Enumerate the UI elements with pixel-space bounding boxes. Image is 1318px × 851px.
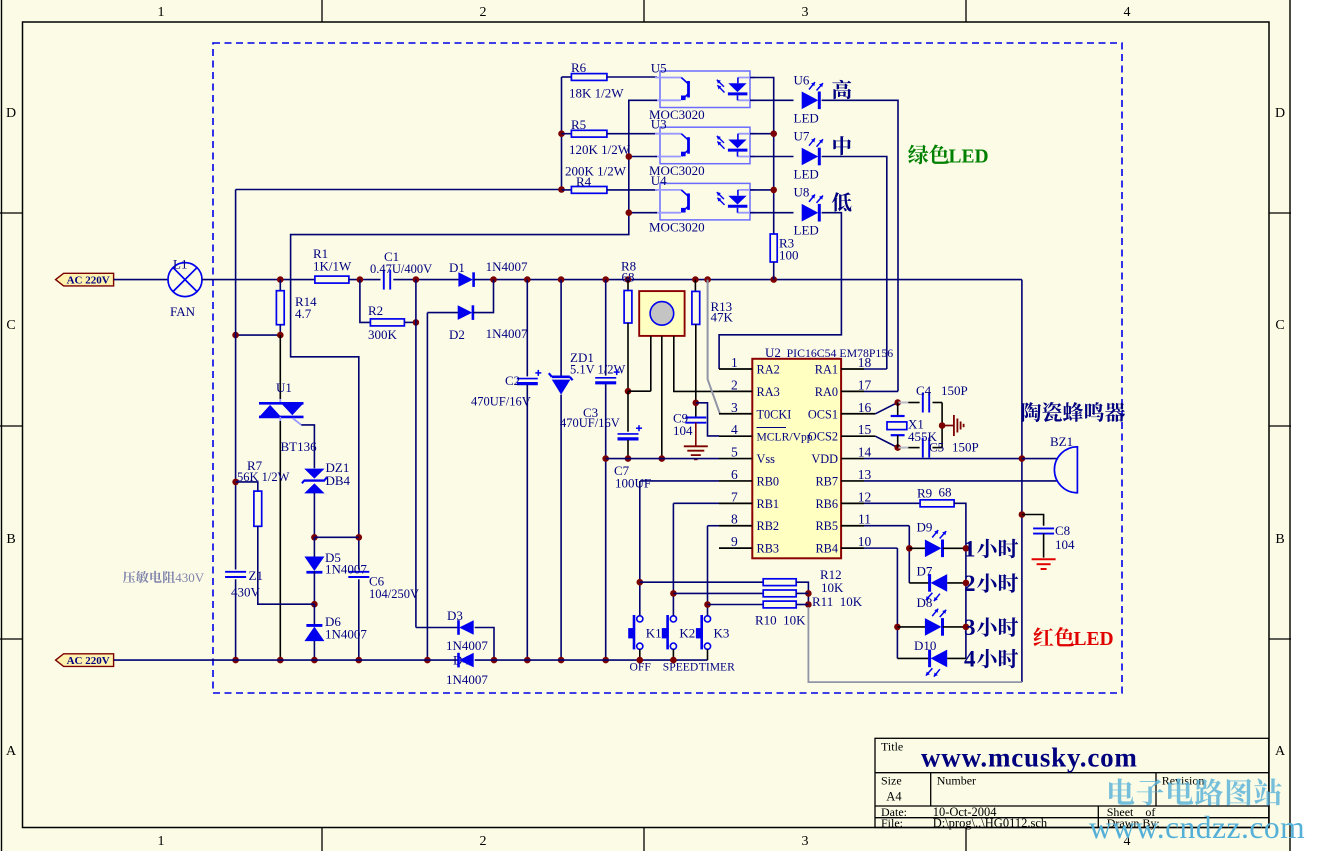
svg-text:68: 68 (622, 270, 635, 285)
svg-text:RA2: RA2 (757, 363, 780, 377)
svg-text:LED: LED (794, 110, 819, 125)
svg-text:3: 3 (964, 615, 976, 640)
svg-text:1N4007: 1N4007 (486, 326, 528, 341)
svg-text:RB6: RB6 (815, 497, 838, 511)
svg-text:FAN: FAN (170, 304, 196, 319)
svg-text:15: 15 (858, 422, 872, 437)
svg-text:TIMER: TIMER (699, 661, 735, 674)
svg-text:1K/1W: 1K/1W (313, 259, 352, 274)
svg-text:6: 6 (731, 467, 738, 482)
svg-text:1: 1 (964, 536, 976, 561)
svg-text:RB3: RB3 (757, 542, 780, 556)
svg-text:LED: LED (1074, 629, 1114, 650)
svg-text:RB5: RB5 (815, 519, 838, 533)
svg-text:D:\prog\..\HG0112.sch: D:\prog\..\HG0112.sch (933, 816, 1048, 830)
svg-text:C2: C2 (505, 373, 520, 388)
svg-text:LED: LED (949, 147, 989, 168)
svg-text:7: 7 (731, 489, 738, 504)
svg-text:RB0: RB0 (757, 474, 780, 488)
svg-text:R6: R6 (571, 60, 587, 75)
svg-text:3: 3 (731, 400, 738, 415)
svg-text:L1: L1 (173, 257, 187, 272)
svg-text:104: 104 (673, 423, 693, 438)
svg-text:3: 3 (802, 834, 809, 849)
svg-text:D1: D1 (449, 260, 465, 275)
svg-text:100UF: 100UF (615, 476, 651, 491)
svg-text:D: D (1275, 106, 1285, 121)
svg-text:150P: 150P (952, 440, 979, 455)
svg-text:300K: 300K (368, 327, 398, 342)
svg-text:OCS1: OCS1 (808, 407, 838, 421)
svg-text:Z1: Z1 (249, 568, 263, 583)
svg-text:430V: 430V (175, 570, 205, 585)
svg-text:U2: U2 (765, 345, 781, 360)
svg-text:Size: Size (881, 774, 902, 788)
svg-text:2: 2 (480, 834, 487, 849)
svg-text:10K: 10K (821, 580, 844, 595)
svg-text:MOC3020: MOC3020 (649, 219, 705, 234)
svg-text:R11 10K: R11 10K (812, 594, 863, 609)
svg-text:1N4007: 1N4007 (446, 672, 488, 687)
svg-text:AC 220V: AC 220V (67, 275, 110, 287)
svg-text:Vss: Vss (757, 452, 776, 466)
svg-text:10: 10 (858, 534, 872, 549)
svg-text:www.mcusky.com: www.mcusky.com (921, 743, 1138, 773)
svg-text:LED: LED (794, 167, 819, 182)
svg-text:A: A (6, 744, 17, 759)
svg-text:4.7: 4.7 (295, 306, 312, 321)
svg-text:MCLR/Vpp: MCLR/Vpp (757, 431, 813, 444)
svg-text:D9: D9 (917, 520, 933, 535)
svg-text:D8: D8 (917, 595, 933, 610)
svg-text:470UF/16V: 470UF/16V (471, 395, 531, 409)
svg-text:D7: D7 (917, 564, 933, 579)
svg-text:1N4007: 1N4007 (325, 562, 367, 577)
svg-text:RA1: RA1 (815, 363, 838, 377)
svg-text:DB4: DB4 (326, 473, 351, 488)
svg-text:U1: U1 (276, 380, 292, 395)
svg-text:A4: A4 (886, 790, 902, 804)
svg-text:56K 1/2W: 56K 1/2W (237, 470, 290, 484)
svg-text:R5: R5 (571, 117, 586, 132)
svg-text:68: 68 (939, 485, 952, 500)
svg-text:C: C (1275, 318, 1284, 333)
svg-text:RA0: RA0 (815, 385, 838, 399)
svg-text:C4: C4 (916, 383, 932, 398)
svg-text:LED: LED (794, 223, 819, 238)
svg-text:1N4007: 1N4007 (325, 627, 367, 642)
svg-text:8: 8 (731, 512, 738, 527)
svg-text:SPEED: SPEED (663, 661, 698, 674)
svg-text:OCS2: OCS2 (808, 430, 838, 444)
svg-text:Number: Number (937, 774, 976, 788)
svg-text:100: 100 (779, 248, 799, 263)
svg-text:47K: 47K (711, 310, 734, 325)
svg-text:Title: Title (881, 740, 903, 754)
svg-text:D: D (6, 106, 16, 121)
svg-text:R4: R4 (576, 174, 592, 189)
svg-text:120K 1/2W: 120K 1/2W (569, 142, 631, 157)
svg-text:104/250V: 104/250V (369, 587, 419, 601)
svg-text:104: 104 (1055, 537, 1075, 552)
svg-text:U5: U5 (651, 61, 667, 76)
svg-text:1N4007: 1N4007 (446, 638, 488, 653)
svg-text:12: 12 (858, 489, 872, 504)
svg-text:14: 14 (858, 445, 872, 460)
svg-text:2: 2 (731, 377, 738, 392)
svg-text:B: B (6, 532, 15, 547)
svg-text:VDD: VDD (811, 452, 838, 466)
svg-text:455K: 455K (908, 429, 938, 444)
svg-text:K2: K2 (679, 626, 695, 641)
svg-text:3: 3 (802, 5, 809, 20)
svg-text:R10 10K: R10 10K (755, 613, 806, 628)
svg-text:0.47U/400V: 0.47U/400V (370, 262, 432, 276)
svg-text:www.cndzz.com: www.cndzz.com (1089, 810, 1305, 845)
svg-text:D2: D2 (449, 327, 465, 342)
svg-text:K3: K3 (714, 626, 730, 641)
svg-text:R9: R9 (917, 486, 932, 501)
svg-text:U3: U3 (651, 117, 667, 132)
svg-text:4: 4 (1124, 5, 1131, 20)
svg-text:BT136: BT136 (281, 439, 318, 454)
svg-text:AC 220V: AC 220V (67, 655, 110, 667)
svg-text:B: B (1275, 532, 1284, 547)
svg-text:K1: K1 (646, 626, 662, 641)
svg-text:1: 1 (158, 5, 165, 20)
svg-text:D10: D10 (914, 638, 936, 653)
svg-text:T0CKI: T0CKI (757, 407, 792, 421)
svg-text:11: 11 (858, 512, 871, 527)
svg-text:18: 18 (858, 355, 872, 370)
svg-text:200K 1/2W: 200K 1/2W (565, 164, 627, 179)
svg-text:C: C (6, 318, 15, 333)
svg-text:2: 2 (480, 5, 487, 20)
svg-text:150P: 150P (941, 383, 968, 398)
svg-text:1: 1 (158, 834, 165, 849)
svg-text:PIC16C54 EM78P156: PIC16C54 EM78P156 (787, 346, 894, 360)
svg-text:4: 4 (731, 422, 738, 437)
svg-text:BZ1: BZ1 (1050, 434, 1073, 449)
svg-text:C8: C8 (1055, 523, 1070, 538)
svg-text:17: 17 (858, 377, 872, 392)
svg-text:18K 1/2W: 18K 1/2W (569, 86, 624, 101)
svg-text:13: 13 (858, 467, 872, 482)
svg-text:1: 1 (731, 355, 738, 370)
svg-text:RB2: RB2 (757, 519, 780, 533)
svg-text:File:: File: (881, 816, 903, 830)
svg-text:U6: U6 (794, 72, 810, 87)
svg-text:9: 9 (731, 534, 738, 549)
svg-text:RB1: RB1 (757, 497, 780, 511)
svg-text:A: A (1275, 744, 1286, 759)
svg-text:RA3: RA3 (757, 385, 780, 399)
svg-text:5: 5 (731, 445, 738, 460)
svg-text:430V: 430V (231, 585, 261, 600)
svg-text:RB4: RB4 (815, 542, 838, 556)
svg-text:1N4007: 1N4007 (486, 259, 528, 274)
svg-text:U7: U7 (794, 129, 810, 144)
svg-text:16: 16 (858, 400, 872, 415)
svg-text:R2: R2 (368, 303, 383, 318)
svg-text:4: 4 (964, 646, 976, 671)
svg-text:470UF/16V: 470UF/16V (560, 416, 620, 430)
svg-text:U4: U4 (651, 173, 667, 188)
svg-text:2: 2 (964, 571, 976, 596)
svg-text:D3: D3 (447, 608, 463, 623)
svg-text:U8: U8 (794, 185, 810, 200)
svg-text:RB7: RB7 (815, 474, 838, 488)
